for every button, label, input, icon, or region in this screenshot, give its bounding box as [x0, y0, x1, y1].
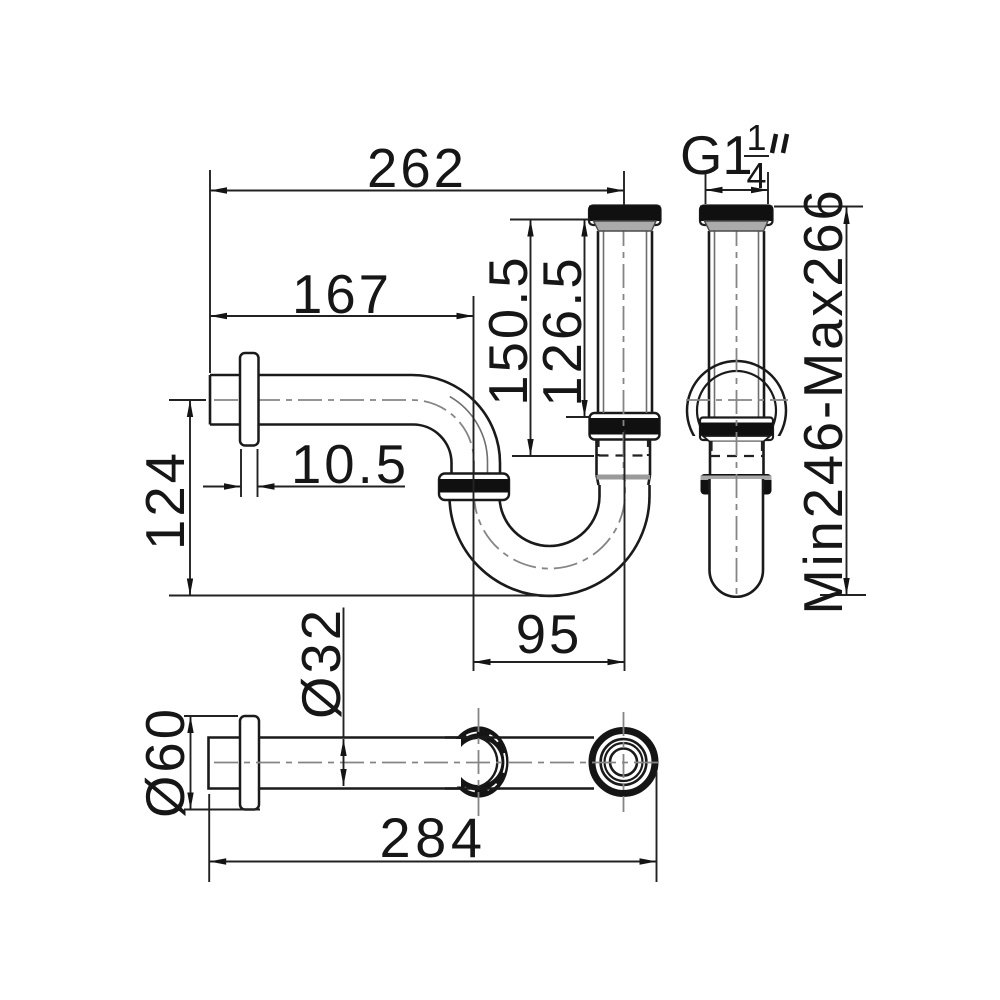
- tailpiece lower tube: [595, 440, 598, 476]
- middle slip ring: [449, 726, 509, 797]
- extension line through nut down to 95: [473, 296, 475, 671]
- dimension 284 extension lines: [208, 794, 210, 882]
- tailpiece lower nut: [590, 413, 660, 440]
- dimension 167: [210, 315, 474, 317]
- svg-text:Min246-Max266: Min246-Max266: [793, 187, 854, 614]
- bottom view pipe edges: [259, 736, 594, 739]
- U-bend outer arc: [450, 485, 650, 596]
- dimension 124: [189, 400, 191, 596]
- tailpiece wall thin lines: [603, 224, 605, 413]
- svg-text:167: 167: [292, 264, 392, 325]
- wall flange: [240, 353, 259, 446]
- top nut lower trapezoid: [594, 221, 657, 231]
- U-bend inlet-side nut: [439, 474, 509, 501]
- svg-text:124: 124: [135, 450, 196, 550]
- dimension O60 extension lines: [184, 715, 238, 717]
- dimension O60: [190, 716, 192, 810]
- svg-text:284: 284: [380, 806, 487, 869]
- pipe edges through ring: [445, 736, 500, 739]
- side circle center cross: [686, 399, 788, 401]
- svg-text:Ø32: Ø32: [291, 607, 352, 719]
- Min-Max dimension extension lines: [774, 206, 863, 208]
- svg-text:262: 262: [367, 138, 467, 199]
- side centerline: [736, 222, 738, 600]
- svg-text:G1: G1: [680, 125, 753, 186]
- svg-text:Ø60: Ø60: [135, 706, 196, 818]
- svg-text:95: 95: [516, 604, 583, 665]
- dimension 124 extension lines: [169, 399, 206, 401]
- dimension 126.5: [584, 220, 586, 418]
- side pipe edges: [708, 231, 711, 418]
- side nut trapezoid: [703, 436, 770, 442]
- outlet ring vertical centerline: [623, 712, 625, 812]
- inlet pipe centerline: [214, 400, 474, 496]
- inlet pipe end cap: [209, 375, 212, 425]
- side lower nut gray band: [701, 476, 772, 481]
- bottom view centerline: [214, 762, 662, 764]
- dimension 262: [210, 190, 624, 192]
- side thread dashes: [710, 455, 764, 457]
- side top nut trapezoid: [705, 221, 769, 231]
- side top coupling nut: [700, 206, 773, 226]
- dimension 95: [474, 661, 625, 663]
- dimension 262 extension lines: [209, 170, 211, 373]
- middle ring bore C arc: [477, 737, 497, 787]
- side outlet tube: [710, 479, 764, 597]
- dimension 10.5: [203, 486, 241, 488]
- outlet rings: [592, 731, 655, 794]
- dimension 95 extension line right: [624, 430, 626, 671]
- bottom view flange: [240, 716, 259, 810]
- svg-text:1: 1: [746, 117, 766, 158]
- thread dashes on tailpiece: [597, 437, 599, 456]
- slip joint gray band: [597, 475, 651, 480]
- G1 1/4 dimension: [705, 174, 707, 204]
- bottom view stub pipe: [209, 738, 241, 789]
- top coupling nut: [589, 206, 661, 226]
- vertical tailpiece tube: [597, 231, 600, 413]
- side lower nut: [701, 474, 772, 495]
- dimension Min246-Max266: [846, 207, 848, 595]
- dimension O32 leader: [343, 608, 345, 738]
- middle ring vertical centerline: [478, 708, 480, 818]
- side tube below nut: [710, 442, 764, 476]
- U-bend seen from side: inner circle: [697, 371, 776, 450]
- dimension 150.5 extension lines: [510, 219, 590, 221]
- U-bend centerline arc: [474, 480, 625, 569]
- svg-text:126.5: 126.5: [532, 255, 593, 406]
- side slip nut black band: [700, 423, 773, 436]
- U-bend inner arc: [500, 485, 600, 546]
- dimension 10.5 extension lines: [240, 449, 242, 497]
- dimension 126.5 extension line: [566, 416, 590, 418]
- tailpiece slip-joint flare: [597, 475, 651, 485]
- svg-text:10.5: 10.5: [291, 434, 409, 495]
- side slip nut white band: [700, 418, 773, 441]
- dimension 284: [209, 861, 656, 863]
- tailpiece centerline: [623, 222, 625, 480]
- dimension 150.5: [530, 220, 532, 457]
- elbow inner-wall thin arc: [450, 397, 488, 474]
- svg-text:150.5: 150.5: [478, 254, 539, 405]
- inlet pipe outline: [210, 375, 500, 499]
- side pipe wall thin lines: [714, 224, 716, 417]
- U-bend seen from side: outer circle: [687, 361, 786, 460]
